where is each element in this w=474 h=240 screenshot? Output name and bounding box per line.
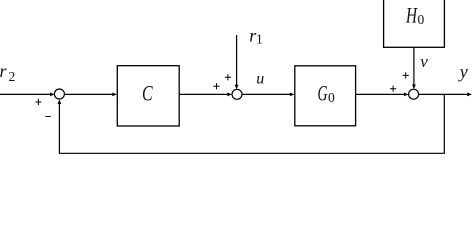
wire C to sum2: [179, 93, 229, 95]
svg-text:y: y: [458, 62, 468, 82]
arrowhead into C: [112, 93, 117, 97]
arrowhead into G0: [290, 93, 295, 97]
svg-text:G: G: [318, 81, 328, 106]
svg-text:H: H: [405, 3, 417, 28]
arrowhead output y: [467, 93, 472, 97]
plus sign at S3 horizontal input: [390, 86, 396, 92]
plus sign at S2 horizontal input: [213, 83, 219, 89]
arrowhead v into S3 top: [412, 85, 416, 90]
wire feedback down from branch: [59, 94, 444, 153]
svg-text:C: C: [142, 80, 153, 105]
minus sign at S1: [46, 116, 51, 118]
arrowhead into S2 left: [227, 93, 232, 97]
block H0: [384, 0, 445, 47]
plus sign at S1: [35, 99, 41, 105]
wire sum2 to G0: [242, 93, 291, 95]
wire H0 to sum3 vertical: [413, 48, 415, 86]
summing junction S3: [409, 89, 419, 99]
wire r2 input: [0, 93, 51, 95]
wire sum3 to output y: [419, 93, 469, 95]
svg-text:v: v: [420, 52, 428, 71]
arrowhead r1 into S2 top: [235, 85, 239, 90]
svg-text:r: r: [0, 61, 8, 81]
arrowhead into S3 left: [404, 93, 409, 97]
summing junction S2: [232, 89, 242, 99]
svg-text:u: u: [256, 71, 264, 88]
svg-text:1: 1: [256, 32, 263, 47]
svg-text:2: 2: [9, 69, 16, 84]
svg-text:0: 0: [328, 90, 335, 105]
block C: [117, 66, 179, 126]
summing junction S1: [54, 89, 64, 99]
wire G0 to sum3: [356, 93, 406, 95]
arrowhead feedback into S1 bottom: [58, 99, 62, 104]
plus sign at S3 vertical input: [403, 72, 409, 78]
plus sign at S2 vertical input: [225, 74, 231, 80]
arrowhead into S1 left: [50, 93, 55, 97]
block G0: [295, 66, 356, 126]
wire r1 input vertical: [236, 35, 238, 86]
wire sum1 to C: [64, 93, 113, 95]
svg-text:0: 0: [418, 12, 425, 27]
